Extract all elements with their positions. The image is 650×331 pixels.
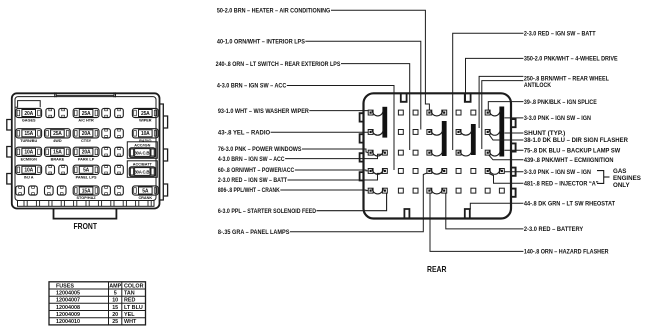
wire hazard flasher (430, 193, 523, 251)
spare fuse socket (46, 108, 55, 117)
svg-text:15: 15 (112, 305, 118, 311)
svg-text:CTSY: CTSY (81, 139, 92, 143)
svg-text:PARK LP: PARK LP (78, 157, 95, 161)
wire power windows (302, 149, 368, 153)
svg-text:ANTILOCK: ANTILOCK (524, 82, 552, 89)
fuse label CRANK (138, 196, 152, 200)
terminal r4c7 (456, 169, 461, 174)
wire shunt pointer (504, 132, 523, 134)
fuse label GAGES (22, 119, 36, 123)
jumper clip r3 c7-c8 (460, 150, 472, 156)
svg-text:5: 5 (114, 291, 117, 297)
jumper clip r3 c1-c2 (372, 150, 383, 156)
terminal r1c3 (398, 110, 403, 115)
spare fuse socket (57, 186, 66, 195)
circuit breaker ACC/BATT 30A (127, 161, 157, 178)
terminal r4c10 (499, 169, 504, 174)
terminal r5c2 (382, 188, 387, 193)
wire ign sw ign 1 (504, 117, 523, 119)
terminal r4c8 (471, 169, 476, 174)
wire ign splice (488, 102, 523, 110)
jumper clip r5 c5-c6 (431, 188, 443, 194)
svg-text:15A: 15A (82, 188, 91, 194)
spare fuse socket (16, 186, 25, 195)
wire rear wheel antilock (double) (479, 76, 523, 128)
jumper clip r2 c9-c10 (489, 130, 500, 136)
fuse 5A (73, 165, 99, 174)
svg-text:25A: 25A (82, 111, 91, 117)
wire ign sw acc (mid) (285, 154, 382, 158)
wire ecm/ignition (489, 155, 524, 160)
svg-text:10: 10 (112, 298, 118, 304)
front panel inner top step (15, 101, 40, 108)
jumper clip r4 c1-c2 (372, 169, 383, 175)
svg-text:4-3.0 BRN – IGN SW – ACC: 4-3.0 BRN – IGN SW – ACC (218, 156, 285, 163)
svg-text:RED: RED (124, 298, 135, 304)
spare fuse socket (115, 186, 124, 195)
terminal r1c5 (427, 110, 432, 115)
svg-text:76-3.0 PNK – POWER WINDOWS: 76-3.0 PNK – POWER WINDOWS (218, 146, 302, 153)
rear panel bottom notch 2 (465, 209, 470, 219)
svg-text:25: 25 (112, 319, 118, 325)
svg-text:25A: 25A (53, 131, 62, 137)
spare fuse socket (59, 108, 68, 117)
svg-text:43-.8 YEL – RADIO: 43-.8 YEL – RADIO (218, 130, 270, 137)
front fuse panel outline (12, 93, 160, 208)
svg-text:6-3.0 PPL – STARTER SOLENOID F: 6-3.0 PPL – STARTER SOLENOID FEED (218, 208, 317, 215)
svg-text:SHUNT (TYP.): SHUNT (TYP.) (524, 130, 565, 137)
front panel right edge wing (160, 104, 164, 200)
svg-text:BRAKE: BRAKE (51, 157, 65, 161)
caption FRONT (74, 222, 98, 231)
wire ign sw batt (top right) (453, 33, 524, 150)
terminal r2c7 (456, 130, 461, 135)
rear panel bottom notch 1 (404, 209, 409, 219)
terminal r4c2 (382, 169, 387, 174)
fuse 25A (132, 108, 158, 117)
fuse 15A (45, 147, 71, 156)
terminal r5c10 (499, 188, 504, 193)
svg-text:12004008: 12004008 (56, 305, 80, 311)
svg-text:CRANK: CRANK (138, 196, 152, 200)
terminal r1c6 (442, 110, 447, 115)
spare fuse socket (102, 186, 111, 195)
connector strip ticks (23, 201, 25, 207)
svg-text:PANEL LPS: PANEL LPS (76, 175, 97, 179)
svg-text:140-.8 ORN – HAZARD FLASHER: 140-.8 ORN – HAZARD FLASHER (524, 249, 609, 256)
shunt busbar col 8 (471, 124, 476, 155)
front panel left edge tabs (7, 120, 12, 131)
fuse 20A (73, 147, 99, 156)
fuse 20A (73, 129, 99, 138)
fuse label WIPER (139, 119, 152, 123)
front panel bottom connector strip (18, 201, 155, 207)
terminal r3c1 (368, 150, 373, 155)
terminal r5c1 (368, 188, 373, 193)
wire battery (446, 193, 524, 229)
jumper clip r1 c1-c2 (372, 110, 383, 116)
terminal r4c9 (485, 169, 490, 174)
fuse 15A (73, 186, 99, 195)
terminal r1c1 (368, 110, 373, 115)
terminal r3c2 (382, 150, 387, 155)
fuse 25A (45, 129, 71, 138)
jumper clip r3 c9-c10 (489, 150, 500, 156)
spare fuse socket (102, 129, 111, 138)
terminal r1c9 (485, 110, 490, 115)
svg-text:ENGINES: ENGINES (613, 175, 641, 182)
svg-text:40-1.0 ORN/WHT – INTERIOR LPS: 40-1.0 ORN/WHT – INTERIOR LPS (217, 39, 305, 46)
rear panel top notch 1 (401, 93, 407, 102)
terminal r2c3 (398, 130, 403, 135)
svg-text:8-.35 GRA – PANEL LAMPS: 8-.35 GRA – PANEL LAMPS (218, 229, 290, 236)
spare fuse socket (46, 165, 55, 174)
svg-text:INJ A: INJ A (24, 175, 34, 179)
svg-text:WHT: WHT (124, 319, 137, 325)
svg-text:AMP: AMP (109, 283, 121, 289)
svg-text:12004009: 12004009 (56, 312, 80, 318)
svg-text:ACC/BATT: ACC/BATT (133, 163, 153, 167)
fuse label A/C HTR (78, 119, 94, 123)
terminal r2c1 (368, 130, 373, 135)
fuse label STOP/HAZ (77, 196, 97, 200)
svg-text:ECM/IGN: ECM/IGN (21, 157, 38, 161)
fuse label CTSY (81, 139, 92, 143)
fuse label TURN/BU (20, 139, 37, 143)
bracket gas engines only (597, 171, 604, 184)
spare fuse socket (59, 165, 68, 174)
svg-text:5A: 5A (83, 168, 90, 174)
svg-text:20: 20 (112, 312, 118, 318)
svg-text:GAS: GAS (613, 168, 626, 175)
spare fuse socket (102, 165, 111, 174)
terminal r5c8 (471, 188, 476, 193)
svg-text:60-.8 ORN/WHT – POWER/ACC: 60-.8 ORN/WHT – POWER/ACC (218, 167, 295, 174)
terminal r4c4 (413, 169, 418, 174)
terminal r3c9 (485, 150, 490, 155)
terminal r2c5 (427, 130, 432, 135)
fuse 20A (16, 108, 42, 117)
front panel bottom tab (54, 209, 117, 219)
svg-text:3-3.0 PNK – IGN SW – IGN: 3-3.0 PNK – IGN SW – IGN (524, 115, 591, 122)
svg-text:481-.8 RED – INJECTOR “A”: 481-.8 RED – INJECTOR “A” (524, 181, 599, 188)
wire radio (271, 131, 368, 133)
svg-text:50-2.0 BRN – HEATER – AIR COND: 50-2.0 BRN – HEATER – AIR CONDITIONING (217, 7, 331, 14)
fuse 10A (132, 129, 158, 138)
wire ign sw acc (top) (287, 86, 394, 171)
jumper clip r3 c5-c6 (431, 150, 443, 156)
wire washer wiper (309, 110, 368, 112)
svg-text:25A: 25A (141, 111, 150, 117)
wire ign sw batt (mid) (288, 173, 383, 180)
terminal r4c5 (427, 169, 432, 174)
wire heater/AC (331, 10, 429, 110)
fuse 10A (16, 165, 42, 174)
spare fuse socket (102, 108, 111, 117)
svg-text:STOP/HAZ: STOP/HAZ (77, 196, 97, 200)
svg-text:2-3.0 RED – BATTERY: 2-3.0 RED – BATTERY (524, 226, 584, 233)
svg-text:240-.8 ORN – LT SWITCH – REAR: 240-.8 ORN – LT SWITCH – REAR EXTERIOR L… (216, 61, 341, 68)
svg-text:FUSES: FUSES (56, 283, 74, 289)
svg-text:30A C.B.: 30A C.B. (134, 169, 150, 174)
svg-text:5A: 5A (142, 188, 149, 194)
wire ign sw ign 2 (504, 171, 523, 173)
fuse label PANEL LPS (76, 175, 97, 179)
jumper clip r2 c1-c2 (372, 130, 383, 136)
terminal r3c4 (413, 150, 418, 155)
terminal r5c9 (485, 188, 490, 193)
svg-text:439-.8 PNK/WHT – ECM/IGNITION: 439-.8 PNK/WHT – ECM/IGNITION (524, 157, 614, 164)
rear panel top notch 2 (465, 93, 471, 102)
terminal r4c6 (442, 169, 447, 174)
svg-text:4WD: 4WD (53, 139, 62, 143)
fuse label INJ A (24, 175, 34, 179)
fuse label BRAKE (51, 157, 65, 161)
svg-text:39-.8 PNK/BLK – IGN SPLICE: 39-.8 PNK/BLK – IGN SPLICE (524, 99, 597, 106)
circuit breaker ACC/IGN 30A (127, 142, 157, 159)
terminal r2c9 (485, 130, 490, 135)
terminal r3c3 (398, 150, 403, 155)
svg-text:LT BLU: LT BLU (124, 305, 143, 311)
svg-text:A/C HTR: A/C HTR (78, 119, 94, 123)
svg-text:3-3.0 PNK – IGN SW – IGN: 3-3.0 PNK – IGN SW – IGN (524, 169, 591, 176)
svg-text:44-.8 DK GRN – LT SW RHEOSTAT: 44-.8 DK GRN – LT SW RHEOSTAT (524, 201, 615, 208)
svg-text:12004005: 12004005 (56, 291, 80, 297)
rear panel right edge tabs (511, 119, 516, 127)
svg-text:75-.8 DK BLU – BACKUP LAMP SW: 75-.8 DK BLU – BACKUP LAMP SW (524, 148, 620, 155)
fuse label ECM/IGN (21, 157, 38, 161)
jumper clip r5 c1-c2 (372, 188, 383, 194)
terminal r3c7 (456, 150, 461, 155)
svg-text:TAN: TAN (124, 291, 135, 297)
fuse 10A (16, 147, 42, 156)
terminal r5c5 (427, 188, 432, 193)
fuse label 4WD (53, 139, 62, 143)
front panel inner border (15, 97, 156, 201)
jumper clip r2 c7-c8 (460, 130, 472, 136)
jumper clip r4 c5-c6 (431, 169, 443, 175)
svg-text:20A: 20A (82, 131, 91, 137)
rear fuse panel outline (364, 93, 512, 218)
shunt busbar col 2 (382, 107, 387, 138)
shunt busbar col 10 (499, 107, 504, 157)
svg-text:20A: 20A (82, 150, 91, 156)
wire starter solenoid feed (317, 193, 387, 211)
rear panel left edge tabs (360, 113, 364, 121)
spare fuse socket (115, 129, 124, 138)
terminal r5c4 (413, 188, 418, 193)
svg-text:10A: 10A (24, 168, 33, 174)
svg-text:2-3.0 RED – IGN SW – BATT: 2-3.0 RED – IGN SW – BATT (218, 177, 287, 184)
terminal r5c7 (456, 188, 461, 193)
wire rear exterior lps (341, 64, 410, 150)
terminal r1c4 (413, 110, 418, 115)
wire power/acc (295, 169, 368, 172)
wire interior lps (305, 41, 420, 129)
svg-text:2-3.0 RED – IGN SW – BATT: 2-3.0 RED – IGN SW – BATT (524, 31, 596, 38)
terminal r2c4 (413, 130, 418, 135)
svg-text:ACC/IGN: ACC/IGN (134, 144, 150, 148)
jumper clip r1 c9-c10 (489, 110, 500, 116)
fuse 25A (73, 108, 99, 117)
terminal r1c7 (456, 110, 461, 115)
fuse 5A (132, 186, 158, 195)
spare fuse socket (115, 147, 124, 156)
spare fuse socket (29, 186, 38, 195)
svg-text:FRONT: FRONT (74, 222, 98, 231)
jumper clip r2 c5-c6 (431, 130, 443, 136)
wire crank (280, 189, 368, 192)
svg-text:10A: 10A (24, 150, 33, 156)
spare fuse socket (102, 147, 111, 156)
terminal r4c3 (398, 169, 403, 174)
svg-text:12004010: 12004010 (56, 319, 80, 325)
wire dir sign flasher (489, 134, 524, 140)
svg-text:COLOR: COLOR (124, 283, 144, 289)
svg-text:4-3.0 BRN – IGN SW – ACC: 4-3.0 BRN – IGN SW – ACC (217, 83, 287, 90)
svg-text:REAR: REAR (427, 265, 447, 274)
svg-text:WIPER: WIPER (139, 119, 152, 123)
front panel top recessed section (56, 95, 114, 97)
wire panel lamps (290, 173, 427, 232)
terminal r5c3 (398, 188, 403, 193)
svg-text:10A: 10A (141, 131, 150, 137)
svg-text:ONLY: ONLY (613, 182, 630, 189)
svg-text:38-1.0 DK BLU – DIR SIGN FLASH: 38-1.0 DK BLU – DIR SIGN FLASHER (524, 137, 628, 144)
terminal r1c8 (471, 110, 476, 115)
fuse 15A (16, 129, 42, 138)
wire backup lamp sw (504, 149, 523, 151)
svg-text:93-1.0 WHT – W/S WASHER WIPER: 93-1.0 WHT – W/S WASHER WIPER (218, 108, 309, 115)
terminal r3c5 (427, 150, 432, 155)
svg-text:12004007: 12004007 (56, 298, 80, 304)
fuse part-number table (49, 282, 146, 325)
svg-text:806-.8 PPL/WHT – CRANK: 806-.8 PPL/WHT – CRANK (218, 187, 280, 194)
shunt busbar col 6 (442, 121, 447, 156)
svg-text:350-2.0 PNK/WHT – 4-WHEEL DRIV: 350-2.0 PNK/WHT – 4-WHEEL DRIVE (524, 56, 618, 63)
terminal r4c1 (368, 169, 373, 174)
wire 4-wheel drive (466, 58, 524, 101)
svg-text:15A: 15A (24, 131, 33, 137)
fuse label RADIO (139, 139, 151, 143)
svg-text:30A C.B.: 30A C.B. (134, 150, 150, 155)
svg-text:TURN/BU: TURN/BU (20, 139, 37, 143)
spare fuse socket (115, 165, 124, 174)
svg-text:20A: 20A (24, 111, 33, 117)
spare fuse socket (115, 108, 124, 117)
spare fuse socket (45, 186, 54, 195)
svg-text:YEL: YEL (124, 312, 135, 318)
svg-text:GAGES: GAGES (22, 119, 36, 123)
jumper clip r1 c5-c6 (431, 110, 443, 116)
wire injector A (489, 174, 523, 184)
wire lt sw rheostat (470, 203, 523, 209)
jumper clip r4 c9-c10 (489, 169, 500, 175)
svg-text:15A: 15A (53, 150, 62, 156)
fuse label PARK LP (78, 157, 95, 161)
terminal r5c6 (442, 188, 447, 193)
